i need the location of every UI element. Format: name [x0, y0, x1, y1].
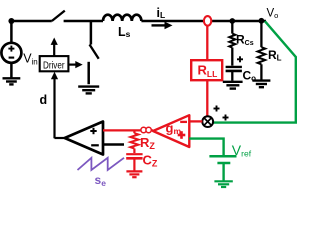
node input	[8, 18, 14, 24]
resistor RCo	[231, 21, 233, 34]
wire green vo diagonal	[214, 21, 296, 122]
wire top rail mid	[64, 20, 103, 23]
resistor RL	[260, 21, 262, 47]
arrow driver to S2	[68, 63, 76, 65]
ground Vref	[214, 181, 232, 187]
wire comparator output to d	[55, 137, 65, 139]
wire top rail right	[141, 20, 266, 23]
voltage source Vin	[10, 21, 13, 43]
inductor Ls	[103, 15, 141, 21]
driver U1 box	[40, 56, 69, 71]
comparator U2	[65, 122, 103, 155]
battery Vref	[209, 155, 236, 158]
resistor RZ	[133, 130, 135, 133]
sawtooth se	[78, 158, 125, 170]
plus summer top	[214, 108, 220, 110]
wire low-side switch top	[90, 21, 93, 45]
summing junction	[202, 116, 213, 127]
wire red summer to gm minus	[189, 120, 202, 122]
node RL	[259, 18, 265, 24]
plus Co	[237, 58, 243, 60]
wire comparator minus stub	[103, 143, 124, 145]
ground RL	[252, 81, 270, 88]
op-amp gm	[153, 115, 189, 147]
sense point red circle	[204, 16, 211, 26]
node Co	[229, 18, 235, 24]
current source circles	[141, 127, 146, 132]
ground low-side switch	[78, 87, 99, 94]
ground CZ red	[126, 171, 142, 177]
wire d input	[53, 79, 55, 138]
arrow driver to S1	[53, 45, 55, 57]
ground Vin	[3, 78, 21, 84]
switch S2 low-side blade	[90, 45, 99, 59]
wire green gm plus to Vref	[189, 139, 224, 155]
wire top rail left	[11, 20, 51, 23]
arrow d into driver	[51, 72, 58, 79]
capacitor CZ	[126, 153, 142, 155]
wire red sense down	[206, 26, 208, 61]
wire low-side switch bottom	[87, 62, 90, 84]
switch S1 high-side blade	[52, 11, 65, 21]
svg-text:Driver: Driver	[43, 59, 65, 71]
svg-text:d: d	[40, 93, 48, 107]
plus summer right	[223, 117, 229, 119]
wire red gm output to comparator	[103, 129, 153, 131]
resistor RLL box	[191, 60, 222, 80]
ground Co	[223, 82, 243, 89]
capacitor Co	[226, 66, 242, 68]
wire red RLL to summer	[206, 80, 208, 116]
arrow iL	[152, 24, 167, 26]
